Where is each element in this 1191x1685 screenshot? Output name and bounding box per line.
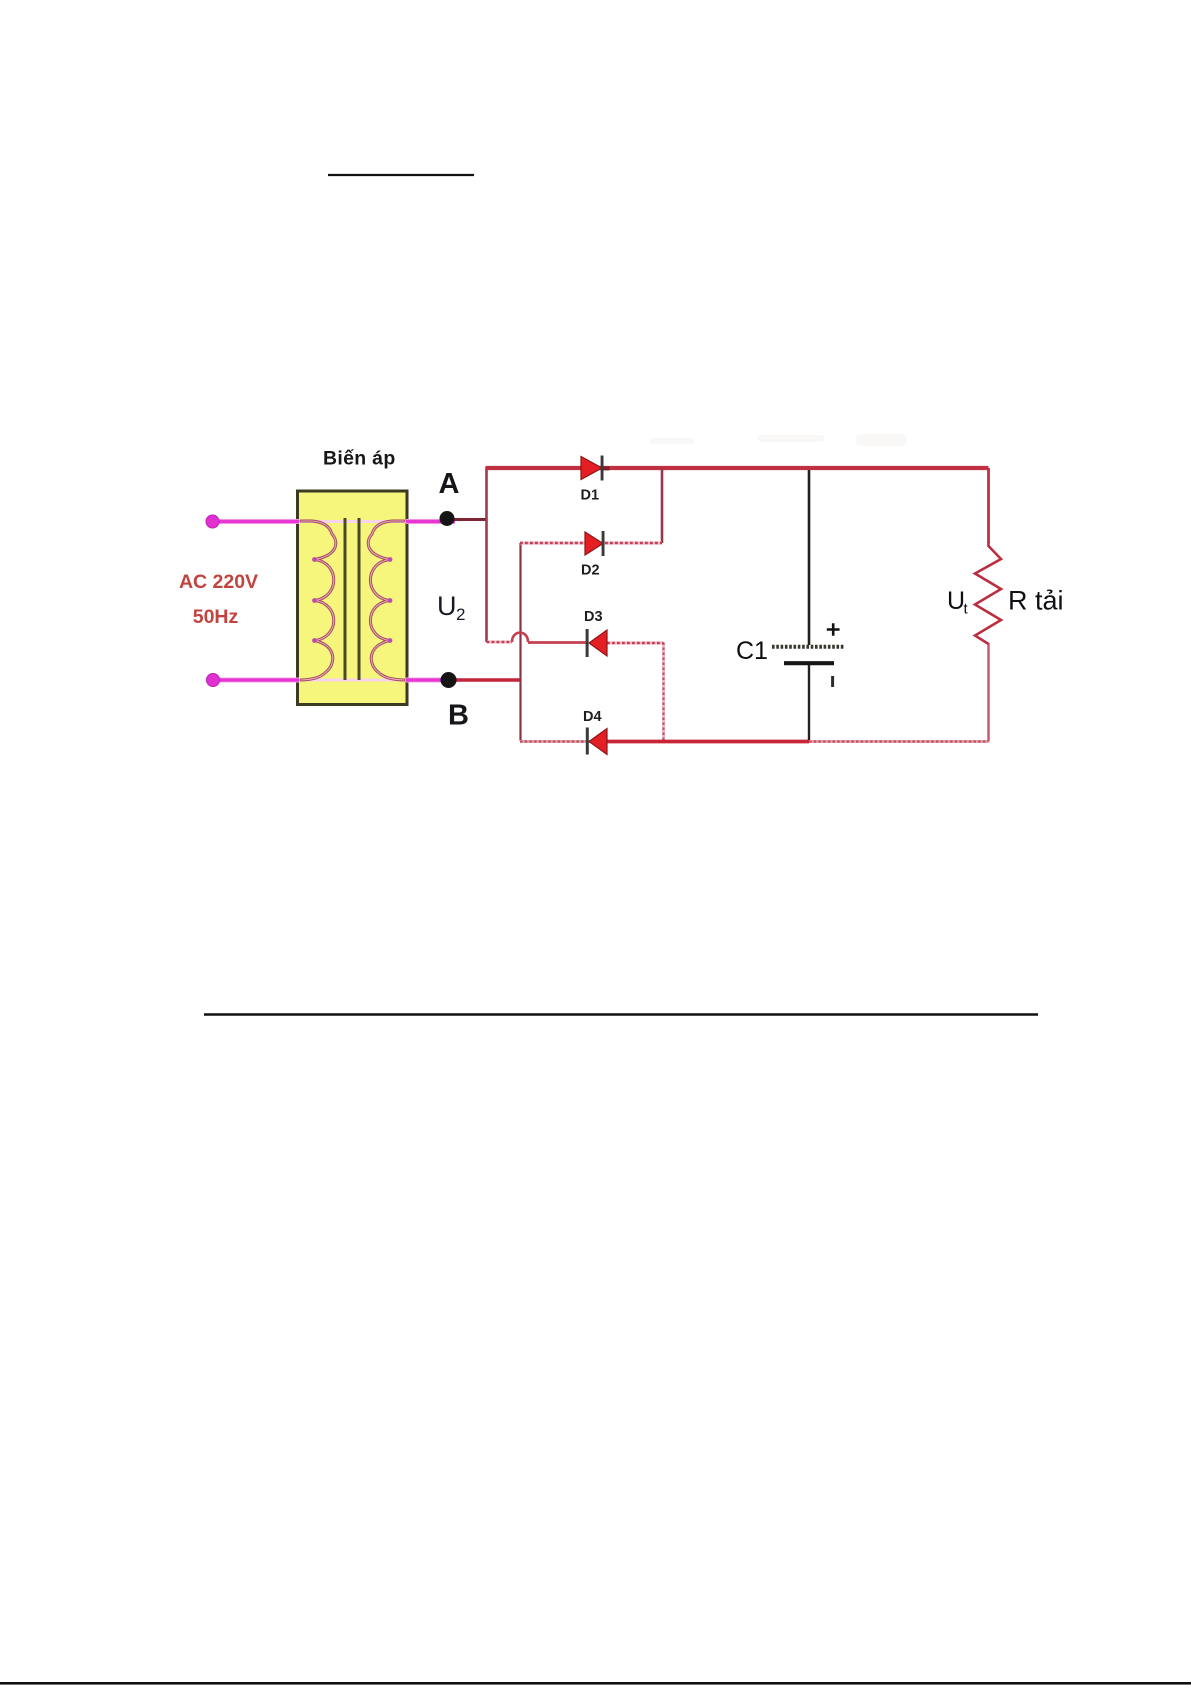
section rule bbox=[204, 1013, 1038, 1015]
svg-text:D3: D3 bbox=[584, 609, 603, 625]
svg-text:U: U bbox=[947, 587, 965, 615]
svg-text:R tải: R tải bbox=[1008, 586, 1064, 616]
node A bbox=[440, 511, 455, 526]
wire D3-D4 join vertical bbox=[662, 643, 665, 742]
svg-text:50Hz: 50Hz bbox=[193, 606, 239, 628]
diode D1 bbox=[581, 456, 610, 481]
node B bbox=[441, 672, 457, 688]
primary-secondary pass-through wires (faint) bbox=[300, 522, 406, 681]
wire D4 row (bottom rail) bbox=[520, 740, 989, 743]
secondary winding bbox=[368, 521, 404, 680]
wire AC bottom (magenta) bbox=[213, 678, 457, 683]
terminal bottom bbox=[207, 674, 220, 687]
svg-text:2: 2 bbox=[456, 605, 465, 624]
svg-text:D1: D1 bbox=[581, 488, 600, 504]
ghost smudge bbox=[650, 434, 906, 446]
terminal top bbox=[206, 515, 219, 528]
resistor R tai zigzag bbox=[975, 542, 1001, 644]
capacitor C1 top plate bbox=[772, 645, 845, 649]
plus sign bbox=[827, 623, 840, 636]
wire vertical from B (D2/D4 branch) bbox=[519, 543, 521, 741]
wire load vertical top bbox=[987, 468, 990, 543]
capacitor C1 top lead bbox=[808, 470, 811, 645]
svg-text:B: B bbox=[448, 700, 469, 732]
svg-text:t: t bbox=[964, 601, 969, 618]
wire node A to bridge bbox=[447, 518, 487, 521]
diode D4 bbox=[586, 728, 607, 755]
svg-text:A: A bbox=[439, 468, 460, 500]
diode D2 bbox=[585, 531, 605, 556]
svg-text:Biến áp: Biến áp bbox=[323, 448, 396, 470]
transformer core bbox=[345, 518, 359, 680]
wire load vertical bottom bbox=[987, 643, 989, 742]
capacitor C1 bottom lead bbox=[808, 665, 810, 740]
wire D3 row with hop bbox=[487, 633, 664, 643]
svg-text:U: U bbox=[437, 591, 457, 621]
capacitor C1 bottom plate bbox=[784, 661, 834, 665]
title underline bbox=[328, 174, 474, 176]
wire D1-D2 join vertical bbox=[661, 468, 664, 543]
wire node B to bridge bbox=[448, 678, 521, 681]
minus tick bbox=[831, 676, 834, 687]
svg-text:D4: D4 bbox=[583, 709, 602, 725]
svg-text:C1: C1 bbox=[736, 637, 768, 665]
transformer T1 body bbox=[298, 491, 408, 705]
winding cusp dots bbox=[312, 557, 392, 643]
wire D2 row bbox=[520, 541, 662, 544]
svg-text:AC 220V: AC 220V bbox=[179, 571, 258, 593]
primary winding bbox=[301, 521, 336, 680]
wire top rail bbox=[486, 466, 989, 470]
svg-text:D2: D2 bbox=[581, 563, 600, 579]
footer rule bbox=[0, 1682, 1191, 1685]
wire vertical from A bbox=[485, 467, 488, 643]
diode D3 bbox=[586, 629, 607, 657]
wire AC top (magenta) bbox=[213, 519, 455, 524]
